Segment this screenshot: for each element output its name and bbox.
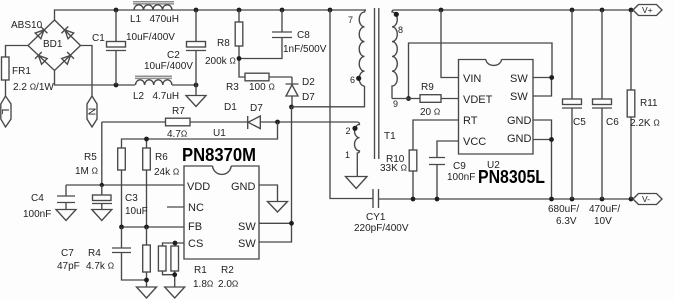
svg-text:2.0Ω: 2.0Ω [218, 279, 238, 291]
wire transformer pin6 to SW node [292, 86, 365, 107]
ground U1 [268, 202, 288, 213]
svg-text:L2 4.7uH: L2 4.7uH [133, 91, 179, 102]
resistor R5 [118, 148, 126, 170]
capacitor C2 [186, 10, 206, 96]
node R8-top [237, 8, 242, 13]
svg-text:ABS10: ABS10 [11, 20, 43, 31]
wire VIN drop [441, 10, 459, 78]
ground T1 pin1 [346, 177, 368, 189]
wire RT to R10 [413, 120, 459, 150]
node R11 bottom [629, 197, 634, 202]
capacitor C5 [562, 10, 582, 199]
capacitor C7 [112, 227, 147, 280]
node D1 cathode [275, 120, 280, 125]
aux winding pin2-pin1 [355, 122, 360, 155]
wire VDD-R7 column [101, 122, 103, 185]
terminal V- [633, 194, 662, 205]
terminal N [85, 96, 97, 127]
wire VCC to C9 [437, 141, 459, 199]
wire D1 node to R5/R6 row [122, 122, 278, 148]
inductor L2 [135, 76, 172, 85]
node C6 top [600, 8, 605, 13]
svg-text:PN8305L: PN8305L [478, 167, 545, 187]
capacitor C8 [239, 10, 292, 59]
svg-text:R9: R9 [421, 82, 434, 93]
node R1R2 bottom [172, 272, 177, 277]
svg-text:C9: C9 [453, 161, 466, 172]
svg-text:R8: R8 [217, 38, 230, 49]
svg-text:C7: C7 [61, 248, 74, 259]
wire bridge right to N terminal [81, 46, 93, 97]
svg-text:PN8370M: PN8370M [182, 145, 256, 165]
ground C3 [92, 210, 112, 221]
wire R10 bottom [412, 171, 414, 199]
ground R1R2 [165, 287, 185, 298]
svg-text:100 Ω: 100 Ω [249, 82, 275, 94]
resistor R10 [409, 150, 417, 171]
resistor R3 [239, 73, 292, 81]
svg-text:4.7Ω: 4.7Ω [167, 129, 187, 141]
svg-text:V+: V+ [642, 5, 653, 15]
wire R1R2 bottoms [163, 271, 175, 287]
svg-text:RT: RT [463, 115, 478, 127]
wire VDD row [66, 184, 184, 186]
svg-text:N: N [85, 108, 97, 116]
secondary winding pin8-pin9 [392, 10, 397, 99]
op-amp U1 PN8370M box [184, 166, 259, 259]
svg-text:SW: SW [510, 91, 528, 103]
wire U1 GND [259, 185, 278, 202]
wire bridge bottom rail [55, 71, 197, 86]
svg-text:CS: CS [188, 238, 203, 250]
op-amp U2 PN8305L box [459, 60, 534, 155]
node pin9-R9 [406, 96, 411, 101]
svg-text:10uF/400V: 10uF/400V [126, 32, 175, 43]
primary winding pin7-pin6 [359, 10, 366, 86]
node SW (U2) [549, 75, 554, 80]
svg-text:VDET: VDET [463, 94, 493, 106]
svg-text:100nF: 100nF [447, 172, 475, 183]
capacitor C9 [429, 158, 445, 165]
svg-text:R6: R6 [155, 152, 168, 163]
ground primary (below C2) [186, 96, 206, 107]
node VIN drop [439, 8, 444, 13]
node R4-C7 bottom [144, 278, 149, 283]
node C5 bottom [570, 197, 575, 202]
resistor R1 [158, 246, 166, 271]
node C9 bottom [435, 197, 440, 202]
node C1-top [114, 8, 119, 13]
svg-text:SW: SW [510, 73, 528, 85]
svg-text:SW: SW [238, 238, 256, 250]
svg-text:R7: R7 [172, 106, 185, 117]
svg-text:C2: C2 [167, 50, 180, 61]
node SW-D2 [289, 105, 294, 110]
wire U1 SW pins [259, 223, 292, 242]
svg-text:9: 9 [393, 99, 398, 109]
svg-text:D1: D1 [224, 102, 237, 113]
wire bottom rail secondary [379, 198, 634, 200]
wire FR1 to L terminal [5, 80, 7, 96]
svg-text:FB: FB [188, 221, 202, 233]
resistor R7 [102, 118, 248, 126]
svg-text:BD1: BD1 [43, 39, 63, 50]
svg-text:U1: U1 [213, 128, 226, 139]
svg-text:C1: C1 [92, 33, 105, 44]
node R10 bottom [411, 197, 416, 202]
capacitor C1 [106, 10, 126, 85]
svg-text:GND: GND [231, 181, 256, 193]
node C3 [100, 183, 104, 187]
diode D1 [248, 116, 357, 129]
svg-text:6: 6 [350, 75, 355, 85]
node C8-top [280, 8, 285, 13]
wire U2 GND pins [533, 120, 552, 199]
node CY1-branch [328, 8, 333, 13]
svg-text:D7: D7 [250, 103, 263, 114]
svg-text:VCC: VCC [463, 136, 486, 148]
wire secondary top rail [394, 9, 633, 11]
svg-text:L1 470uH: L1 470uH [130, 14, 179, 25]
node R2 top [173, 241, 178, 246]
svg-text:R1: R1 [194, 265, 207, 276]
wire NC stub [167, 206, 184, 208]
svg-text:D2: D2 [302, 77, 315, 88]
svg-text:10uF/400V: 10uF/400V [144, 61, 193, 72]
node GND2 [549, 137, 554, 142]
node C2-top [194, 8, 199, 13]
svg-text:47pF: 47pF [57, 261, 80, 272]
node R8-C8 [237, 56, 242, 61]
phase dot pin2 [352, 126, 357, 131]
svg-text:GND: GND [507, 115, 532, 127]
fuse resistor FR1 [2, 57, 10, 80]
svg-text:200k Ω: 200k Ω [205, 56, 236, 68]
capacitor C4 [57, 185, 75, 210]
svg-text:1M Ω: 1M Ω [75, 166, 98, 178]
svg-text:V-: V- [642, 194, 650, 204]
terminal V+ [633, 5, 662, 16]
svg-text:1nF/500V: 1nF/500V [283, 44, 327, 55]
node R4-R6 [144, 225, 149, 230]
svg-text:R4: R4 [88, 248, 101, 259]
svg-text:GND: GND [507, 133, 532, 145]
node R6 top [144, 137, 149, 142]
svg-text:R11: R11 [640, 98, 658, 109]
svg-text:20 Ω: 20 Ω [420, 107, 440, 119]
capacitor C6 [592, 10, 612, 199]
svg-text:220pF/400V: 220pF/400V [354, 223, 409, 234]
svg-text:VDD: VDD [187, 181, 210, 193]
svg-text:D7: D7 [302, 92, 315, 103]
svg-text:2.2 Ω/1W: 2.2 Ω/1W [13, 82, 54, 94]
node C7-R5 [119, 225, 124, 230]
resistor R6 [143, 148, 151, 170]
wire SW node vertical [291, 107, 293, 223]
svg-text:C8: C8 [297, 30, 310, 41]
svg-text:10uF: 10uF [125, 206, 148, 217]
wire R6 column down [146, 170, 148, 227]
svg-text:T1: T1 [384, 131, 396, 142]
svg-text:SW: SW [238, 221, 256, 233]
svg-text:C3: C3 [125, 193, 138, 204]
svg-text:R5: R5 [84, 152, 97, 163]
svg-text:C4: C4 [31, 193, 44, 204]
svg-text:4.7k Ω: 4.7k Ω [86, 261, 114, 273]
node C1-bottom [114, 83, 119, 88]
resistor R2 [171, 246, 179, 271]
bridge rectifier BD1 [28, 20, 81, 71]
svg-text:10V: 10V [594, 216, 612, 227]
diode D2 [286, 77, 299, 107]
node R11 top [629, 8, 634, 13]
svg-text:470uF/: 470uF/ [589, 204, 620, 215]
phase dot pin6 [356, 76, 361, 81]
wire CS row [163, 243, 185, 246]
inductor L1 [133, 2, 174, 10]
node C5 top [570, 8, 575, 13]
svg-text:R3: R3 [226, 82, 239, 93]
capacitor CY1 [373, 189, 379, 208]
svg-text:NC: NC [188, 202, 204, 214]
core [375, 8, 379, 159]
svg-text:6.3V: 6.3V [556, 216, 577, 227]
resistor R8 [235, 10, 243, 74]
svg-text:8: 8 [398, 25, 403, 35]
wire SW net from pin9 [409, 43, 553, 99]
wire CY1 branch (top rail to bottom) [330, 10, 373, 199]
ground C4 [56, 210, 76, 221]
svg-text:1.8Ω: 1.8Ω [193, 279, 213, 291]
node SW [289, 221, 294, 226]
svg-text:C6: C6 [606, 117, 619, 128]
svg-text:2.2K Ω: 2.2K Ω [630, 118, 660, 130]
svg-text:680uF/: 680uF/ [548, 204, 579, 215]
node C2-bottom [194, 83, 199, 88]
svg-text:CY1: CY1 [366, 212, 386, 223]
wire FB row [122, 226, 185, 228]
wire bridge left to FR1 [6, 46, 29, 58]
svg-text:33K Ω: 33K Ω [380, 163, 407, 175]
node C6 bottom [600, 197, 605, 202]
wire R5 column down [121, 170, 123, 227]
terminal L [0, 96, 11, 127]
svg-text:2: 2 [346, 126, 351, 136]
resistor R4 [143, 227, 151, 287]
wire pin1 to ground [356, 155, 358, 177]
svg-text:FR1: FR1 [12, 66, 31, 77]
resistor R9 [420, 95, 441, 103]
svg-text:L: L [0, 109, 11, 115]
svg-text:100nF: 100nF [23, 209, 51, 220]
resistor R11 [627, 10, 635, 199]
svg-text:VIN: VIN [463, 73, 481, 85]
node GND rail [549, 197, 554, 202]
wire top rail primary [55, 10, 367, 20]
phase dot pin8 [394, 12, 399, 17]
wire pin9 row [392, 98, 459, 100]
svg-text:24k Ω: 24k Ω [154, 167, 179, 179]
svg-text:C5: C5 [573, 117, 586, 128]
svg-text:R2: R2 [221, 265, 234, 276]
ground R4 [137, 287, 157, 298]
transformer T1 [345, 8, 403, 189]
capacitor C3 [92, 185, 112, 210]
svg-text:1: 1 [345, 150, 350, 160]
svg-text:7: 7 [348, 15, 353, 25]
